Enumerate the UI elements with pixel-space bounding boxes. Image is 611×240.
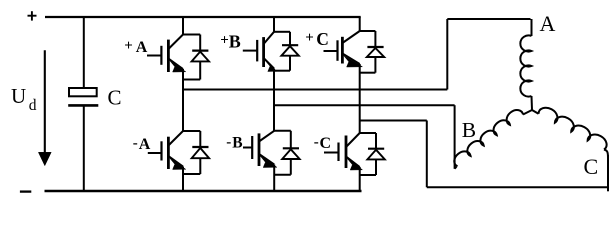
transistor +A (IGBT V1) body bar	[167, 40, 170, 72]
label: + terminal (plus sign)	[28, 15, 37, 17]
wire: phase C drop	[426, 121, 428, 188]
diode D-A (IGBT V4) triangle	[192, 148, 209, 158]
transistor +C (IGBT V5) emitter lead	[342, 54, 359, 65]
wire: phase A leg midpoint vertical	[182, 69, 184, 131]
transistor +C (IGBT V5) body bar	[341, 37, 344, 64]
svg-text:B: B	[229, 32, 241, 52]
svg-text:C: C	[316, 29, 329, 49]
wire: -A emitter to - rail	[182, 167, 184, 192]
transistor +A (IGBT V1) emitter arrow	[170, 61, 186, 72]
diode D-C (IGBT V2) cathode lead	[375, 133, 377, 149]
diode D+B (IGBT V3) cathode lead	[289, 32, 291, 45]
transistor -B (IGBT V6) gate bar	[251, 136, 253, 159]
diode D-C (IGBT V2) triangle	[367, 150, 384, 160]
transistor -B (IGBT V6) gate lead	[243, 147, 252, 149]
wire: phase B leg midpoint vertical	[273, 69, 275, 131]
transistor +B (IGBT V3) emitter arrow	[265, 60, 277, 71]
svg-text:C: C	[584, 154, 599, 179]
diode D+C (IGBT V5) anode lead	[374, 57, 376, 73]
diode D-B (IGBT V6) cathode bar	[283, 147, 299, 149]
arrow: Ud voltage direction	[44, 50, 46, 153]
wire: -A (IGBT V4) collector-diode link	[183, 130, 200, 132]
diode D-A (IGBT V4) anode lead	[199, 158, 201, 174]
wire: +B (IGBT V3) emitter-diode link	[274, 70, 290, 72]
svg-text:B: B	[232, 135, 242, 152]
transistor -A (IGBT V4) collector lead	[168, 131, 183, 146]
wire: +B collector from + rail	[273, 17, 275, 32]
diode D+A (IGBT V1) anode lead	[199, 61, 201, 79]
transistor -C (IGBT V2) body bar	[345, 136, 348, 169]
transistor +B (IGBT V3) collector lead	[264, 32, 274, 44]
svg-text:C: C	[320, 135, 332, 152]
transistor -A (IGBT V4) emitter lead	[168, 156, 183, 167]
wire: -B (IGBT V6) emitter-diode link	[274, 174, 291, 176]
diode D-B (IGBT V6) anode lead	[290, 159, 292, 175]
transistor +C (IGBT V5) gate lead	[324, 50, 338, 52]
transistor +A (IGBT V1) gate lead	[147, 55, 161, 57]
transistor -C (IGBT V2) collector lead	[346, 133, 360, 147]
transistor -A (IGBT V4) gate bar	[160, 141, 162, 160]
transistor -C (IGBT V2) emitter lead	[346, 157, 360, 168]
transistor -A (IGBT V4) gate lead	[148, 152, 162, 154]
transistor +B (IGBT V3) gate lead	[243, 50, 257, 52]
wire: -A (IGBT V4) emitter-diode link	[183, 173, 200, 175]
wire: phase B drop tail	[455, 167, 457, 169]
diode D+A (IGBT V1) triangle	[192, 52, 209, 62]
wire: phase C output tap	[360, 120, 427, 122]
wire: +C (IGBT V5) collector-diode link	[360, 30, 376, 32]
node: star point, stub to winding B	[523, 110, 532, 115]
wire: phase C leg midpoint vertical	[359, 64, 361, 133]
wire: phase A riser	[446, 19, 448, 90]
wire: -C (IGBT V2) emitter-diode link	[360, 174, 376, 176]
diode D-B (IGBT V6) triangle	[282, 149, 299, 159]
transistor -C (IGBT V2) gate lead	[324, 152, 339, 154]
svg-text:-: -	[314, 135, 319, 151]
label: - terminal (minus sign)	[20, 190, 31, 192]
diode D+A (IGBT V1) cathode bar	[192, 49, 208, 51]
diode D+B (IGBT V3) triangle	[281, 46, 298, 56]
svg-text:A: A	[136, 39, 148, 56]
wire: +C collector from + rail	[359, 17, 361, 31]
wire: +A (IGBT V1) collector-diode link	[183, 34, 200, 36]
wire: phase B output tap	[274, 104, 455, 106]
transistor +A (IGBT V1) emitter lead	[168, 59, 183, 70]
diode D-A (IGBT V4) cathode bar	[192, 146, 208, 148]
wire: phase A output tap	[183, 89, 447, 91]
transistor +C (IGBT V5) collector lead	[342, 31, 359, 43]
wire: phase C bottom run	[427, 186, 608, 188]
wire: -C (IGBT V2) collector-diode link	[360, 132, 376, 134]
diode D+C (IGBT V5) cathode bar	[367, 46, 383, 48]
diode D-C (IGBT V2) cathode bar	[368, 148, 384, 150]
diode D+B (IGBT V3) cathode bar	[282, 44, 298, 46]
wire: winding A top lead	[531, 19, 533, 36]
wire: +B (IGBT V3) collector-diode link	[274, 31, 290, 33]
svg-text:+: +	[220, 33, 229, 49]
wire: winding C end curl	[604, 150, 608, 159]
capacitor C (electrolytic, top plate)	[69, 88, 97, 96]
svg-text:A: A	[540, 11, 556, 36]
capacitor C bottom plate	[68, 104, 98, 107]
diode D-C (IGBT V2) anode lead	[375, 159, 377, 175]
diode D-A (IGBT V4) cathode lead	[199, 131, 201, 147]
diode D+B (IGBT V3) anode lead	[289, 56, 291, 71]
diode D+C (IGBT V5) triangle	[367, 48, 384, 57]
wire: capacitor top lead	[83, 17, 85, 88]
inductor: motor winding B	[451, 107, 523, 167]
svg-text:-: -	[226, 135, 231, 151]
svg-text:B: B	[462, 118, 476, 142]
inductor: motor winding C	[538, 105, 610, 150]
node: star point, stub to winding C	[532, 110, 539, 114]
transistor -B (IGBT V6) emitter lead	[259, 154, 274, 165]
wire: -B (IGBT V6) collector-diode link	[274, 130, 291, 132]
transistor +A (IGBT V1) collector lead	[168, 35, 183, 50]
transistor -C (IGBT V2) gate bar	[337, 143, 339, 162]
wire: - DC bus rail	[45, 190, 362, 193]
transistor +A (IGBT V1) gate bar	[160, 46, 162, 65]
diode D+C (IGBT V5) cathode lead	[374, 31, 376, 47]
diode D-B (IGBT V6) cathode lead	[290, 131, 292, 149]
wire: capacitor bottom lead	[83, 105, 85, 191]
transistor +C (IGBT V5) emitter arrow	[344, 56, 363, 67]
svg-text:C: C	[108, 86, 122, 110]
svg-text:A: A	[139, 136, 151, 153]
transistor -B (IGBT V6) body bar	[258, 133, 261, 166]
wire: -C emitter to - rail	[359, 167, 361, 191]
wire: phase C riser to winding	[607, 155, 609, 191]
transistor +B (IGBT V3) emitter lead	[264, 58, 274, 69]
wire: +C (IGBT V5) emitter-diode link	[360, 72, 376, 74]
wire: phase A top run	[447, 18, 530, 20]
transistor -A (IGBT V4) body bar	[167, 137, 170, 169]
transistor +C (IGBT V5) gate bar	[336, 40, 338, 61]
transistor -B (IGBT V6) emitter arrow	[260, 156, 277, 167]
svg-text:+: +	[124, 38, 133, 54]
transistor +B (IGBT V3) body bar	[262, 37, 265, 67]
svg-text:-: -	[133, 136, 138, 152]
wire: +A collector from + rail	[182, 17, 184, 35]
transistor -C (IGBT V2) emitter arrow	[347, 159, 362, 170]
inductor: motor winding A	[520, 35, 531, 96]
wire: phase B drop	[454, 105, 456, 169]
wire: -B emitter to - rail	[273, 165, 275, 192]
transistor -B (IGBT V6) collector lead	[259, 131, 274, 142]
diode D+A (IGBT V1) cathode lead	[199, 35, 201, 51]
wire: +A (IGBT V1) emitter-diode link	[183, 79, 200, 81]
wire: + DC bus rail	[45, 16, 361, 18]
transistor +B (IGBT V3) gate bar	[256, 40, 258, 62]
svg-text:+: +	[305, 30, 314, 46]
wire: winding A to star point	[531, 96, 534, 110]
transistor -A (IGBT V4) emitter arrow	[170, 158, 186, 169]
